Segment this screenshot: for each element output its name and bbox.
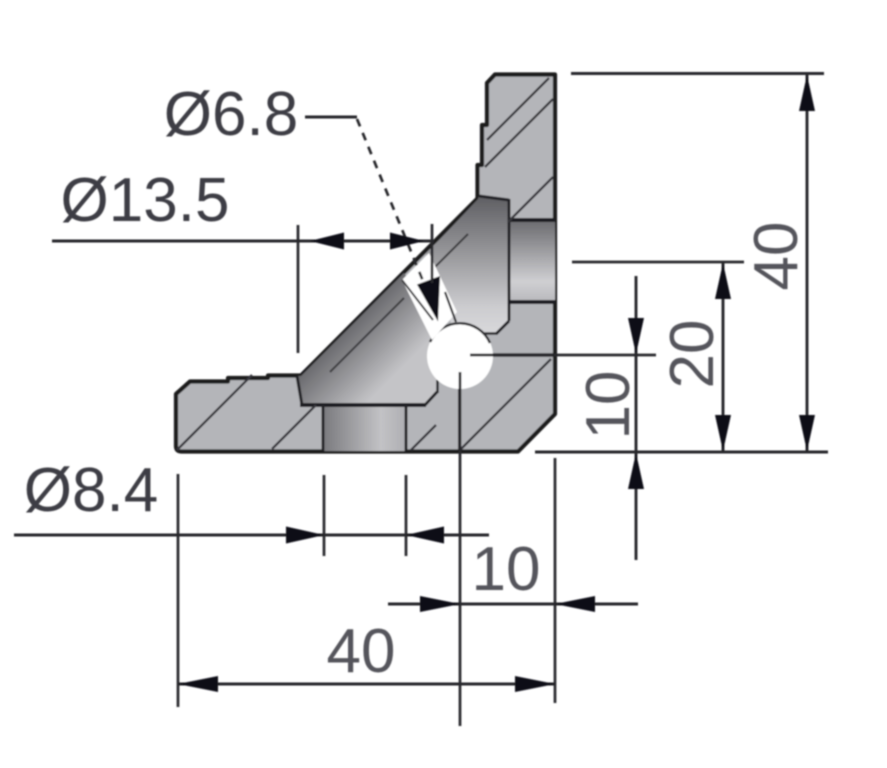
web upper gradient face <box>426 196 509 334</box>
base boss right step <box>425 392 437 405</box>
arrow Ø13.5 left <box>310 233 344 250</box>
svg-text:10: 10 <box>472 535 541 604</box>
extension line left edge <box>177 474 180 707</box>
extension line hole left <box>323 475 326 556</box>
leader arrow <box>417 276 440 322</box>
svg-text:Ø13.5: Ø13.5 <box>61 166 230 235</box>
dimension Ø8.4 line <box>14 534 489 537</box>
arrow 40h right <box>515 676 555 692</box>
core hole top edge arc <box>430 323 490 343</box>
arrow 40v top <box>799 75 815 111</box>
small hole notch <box>402 253 457 340</box>
arrow 40v bottom <box>799 415 815 451</box>
web lower gradient face / boss <box>297 273 438 405</box>
svg-text:20: 20 <box>658 320 727 389</box>
dimension Ø6.8 leader horizontal <box>305 116 357 119</box>
extension line 20 <box>572 261 744 264</box>
hatch leg 2 <box>485 99 553 167</box>
counterbore flat line lower <box>330 298 404 372</box>
dimension 40 horizontal line <box>178 683 555 686</box>
arrow Ø13.5 right <box>390 233 424 250</box>
svg-text:40: 40 <box>327 617 396 686</box>
part silhouette <box>176 75 555 452</box>
notch right wall <box>445 292 456 322</box>
arrow 10v bottom <box>628 453 644 489</box>
leg hole bottom edge <box>509 300 555 304</box>
extension line right edge <box>554 458 557 703</box>
hatch leg 3 <box>508 177 553 222</box>
corner block left edge <box>458 388 461 451</box>
base counterbore depth edge <box>300 403 426 407</box>
arrow Ø8.4 left <box>286 527 324 544</box>
hatch base 1 <box>177 375 252 450</box>
hatch corner block <box>460 359 551 450</box>
base hole left edge <box>322 405 325 451</box>
base hole right edge <box>405 405 408 451</box>
dimension 20 vertical line <box>722 262 725 452</box>
arrow Ø8.4 right <box>406 527 444 544</box>
extension line top <box>571 72 824 75</box>
dimension 10 horizontal line <box>388 603 638 606</box>
arrow 20 top <box>715 263 731 299</box>
extension line left cbore <box>297 225 300 353</box>
leg hole top edge <box>509 218 555 222</box>
extension line hole right <box>405 475 408 556</box>
step to core hole lower <box>436 380 439 393</box>
dimension 10 vertical line <box>635 276 638 560</box>
base screw hole bore <box>323 405 406 451</box>
hatch base flank <box>411 425 436 450</box>
arrow 10h right <box>555 596 595 612</box>
arrow 40h left <box>178 676 218 692</box>
hatch base 2 <box>272 405 316 449</box>
hatch leg 1 <box>487 78 549 140</box>
svg-text:10: 10 <box>574 371 643 440</box>
base boss left edge <box>297 376 302 405</box>
arrow 10v top <box>628 318 644 354</box>
corner block top edge <box>490 353 554 357</box>
arrow 20 bottom <box>715 415 731 451</box>
centerline vertical <box>459 372 462 726</box>
notch lower wall <box>402 280 433 320</box>
boss top edge <box>479 196 509 200</box>
corner core hole <box>427 323 493 389</box>
counterbore face vertical <box>508 199 511 321</box>
svg-text:40: 40 <box>742 222 811 291</box>
extension line right cbore <box>431 224 434 283</box>
step to core hole upper <box>484 332 497 335</box>
arrow 10h left <box>420 596 460 612</box>
leg screw hole bore <box>509 220 555 302</box>
dimension Ø13.5 line <box>52 240 434 243</box>
svg-text:Ø8.4: Ø8.4 <box>24 456 158 525</box>
extension line bottom right <box>535 451 828 454</box>
boss step to hole <box>496 321 509 334</box>
counterbore flat line upper <box>430 234 468 272</box>
svg-text:Ø6.8: Ø6.8 <box>164 80 298 149</box>
dimension Ø6.8 leader dashed <box>357 119 423 281</box>
dimension 40 vertical line <box>806 74 809 453</box>
centerline horizontal <box>470 354 656 357</box>
